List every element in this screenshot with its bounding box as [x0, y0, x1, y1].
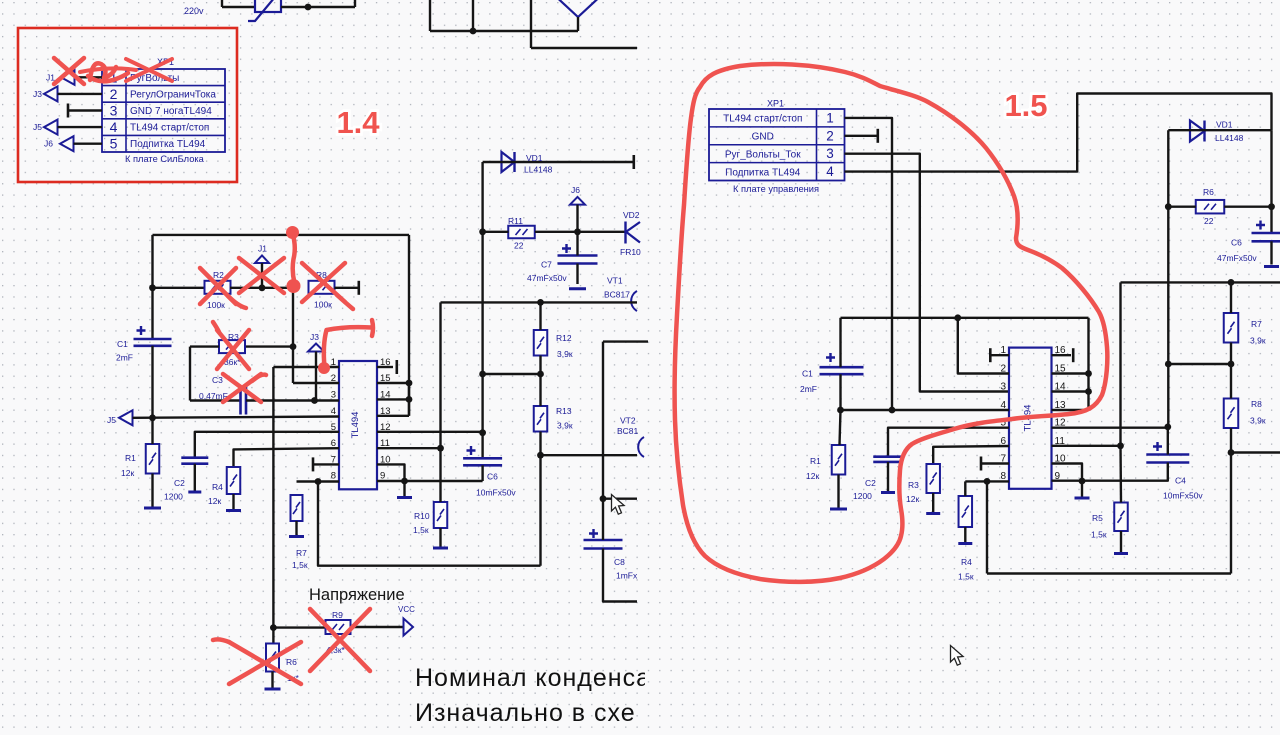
svg-text:3: 3	[1000, 382, 1006, 393]
red freehand loop around 1.5 input section	[675, 64, 1108, 582]
wire R11 to J6 node	[535, 231, 625, 233]
resistor R7 (1.4)	[291, 495, 303, 521]
label VT1 type	[604, 290, 630, 300]
junction J3 node	[311, 397, 318, 404]
wire pin9 row	[377, 480, 483, 482]
wire R10 top	[439, 448, 441, 502]
svg-text:47mFx50v: 47mFx50v	[1217, 253, 1257, 263]
wire C8 top	[602, 499, 604, 540]
wire R12 bottom stub	[539, 356, 541, 375]
ground pin9 (1.5)	[1075, 497, 1090, 500]
wire R7 bottom stub	[1230, 343, 1232, 365]
junction pin14	[406, 396, 413, 403]
wire pin10 jog (1.5)	[1052, 464, 1083, 482]
wire J5 to XP1 row4	[58, 126, 103, 128]
wire R2 to J1 node	[230, 287, 293, 289]
label C2 value	[164, 492, 183, 502]
red vertical squiggle	[293, 233, 295, 283]
svg-text:J6: J6	[44, 139, 53, 149]
svg-text:C2: C2	[865, 478, 876, 488]
connector pin J1 arrow	[61, 70, 75, 85]
wire x1168 crossing	[1167, 207, 1169, 427]
label R9 value	[326, 645, 346, 655]
label C2 (1.5)	[865, 478, 876, 488]
label R5	[1092, 513, 1103, 523]
junction pin12-C6	[479, 429, 486, 436]
wire J6 to XP1 row5	[74, 142, 103, 144]
svg-text:5: 5	[110, 136, 118, 152]
red tail R8	[337, 295, 353, 309]
wire pin15 stub	[377, 382, 409, 384]
svg-text:VD1: VD1	[1216, 120, 1233, 130]
wire horizontal y48 to seam	[531, 47, 637, 49]
label VD1 (1.5)	[1216, 120, 1233, 130]
svg-text:3,9к: 3,9к	[1250, 416, 1266, 426]
label К плате управления	[733, 184, 819, 194]
label C6 value	[476, 488, 516, 498]
label R8 (1.5)	[1251, 399, 1262, 409]
terminal pin16	[395, 360, 398, 374]
wire R4 bottom (1.5)	[964, 527, 966, 544]
junction R7 top	[1228, 279, 1235, 286]
wire VT2 collector top	[603, 340, 648, 342]
wire J5 to pin4	[133, 417, 340, 418]
junction R9 node	[270, 624, 277, 631]
label R10	[414, 511, 430, 521]
wire left rail upper x152	[151, 235, 153, 339]
svg-text:VT1: VT1	[607, 276, 623, 286]
svg-text:2mF: 2mF	[116, 353, 133, 363]
svg-text:VCC: VCC	[398, 605, 415, 614]
wire pin14 stub	[377, 398, 409, 400]
wire pin13 stub	[377, 415, 409, 417]
label C1 value	[116, 353, 133, 363]
svg-text:47mFx50v: 47mFx50v	[527, 273, 567, 283]
ground pin9 (1.4)	[397, 496, 412, 499]
red annotation rectangle around XP1	[18, 28, 237, 182]
junction pin9 gnd (1.5)	[1079, 478, 1086, 485]
capacitor C7	[558, 244, 598, 264]
wire pin16 stub (1.5)	[1052, 354, 1072, 356]
svg-text:R4: R4	[212, 482, 223, 492]
wire left rail lower x152	[151, 346, 153, 418]
red mark near pin1	[324, 320, 373, 367]
svg-text:Напряжение: Напряжение	[309, 586, 405, 604]
svg-text:К плате СилБлока: К плате СилБлока	[125, 154, 205, 164]
resistor R6 (1.4)	[266, 644, 279, 672]
svg-text:R1: R1	[125, 453, 136, 463]
wire R3 bottom (1.5)	[932, 493, 934, 513]
label R8 value	[314, 300, 332, 310]
wire C4 bottom corner	[1052, 463, 1168, 481]
wire pin2 net	[958, 318, 1009, 374]
svg-text:1,5к: 1,5к	[1091, 530, 1107, 540]
wire C7 bottom	[576, 264, 578, 285]
resistor R3	[219, 340, 245, 353]
wire pin16 stub	[377, 366, 393, 368]
wire C2 bottom	[194, 464, 196, 492]
XP1 pin numbers (1.5)	[826, 110, 834, 179]
svg-text:Подпитка TL494: Подпитка TL494	[725, 167, 801, 178]
ground R5	[1114, 552, 1128, 555]
junction J6 node	[574, 228, 581, 235]
svg-text:R1: R1	[810, 456, 821, 466]
junction R6 left (1.5)	[1165, 203, 1172, 210]
label C3	[212, 375, 223, 385]
connector pin J3 arrow (circuit 1.4)	[308, 344, 324, 352]
wire stub down x473	[472, 0, 474, 31]
capacitor C1 (1.5)	[820, 353, 864, 374]
resistor R1 (1.5)	[832, 445, 846, 475]
capacitor C1 (1.4)	[134, 326, 172, 346]
svg-text:R7: R7	[296, 548, 307, 558]
wire R10 bottom	[439, 528, 441, 548]
label R1 (1.5)	[810, 456, 821, 466]
label R11 value	[514, 241, 524, 251]
wire R6 bottom	[271, 672, 273, 690]
wire R1 bottom (1.5)	[837, 475, 839, 510]
terminal GND row2	[876, 129, 879, 143]
svg-text:LL4148: LL4148	[1215, 133, 1244, 143]
junction pin11	[437, 445, 444, 452]
wire pin15 stub (1.5)	[1052, 372, 1089, 374]
connector XP1 (1.4) table	[102, 69, 225, 152]
svg-text:К плате управления: К плате управления	[733, 184, 819, 194]
label VD2 value	[620, 247, 641, 257]
wire XP1 row4 net	[845, 94, 1272, 172]
XP1 net names (1.5)	[723, 114, 802, 179]
svg-text:BC81: BC81	[617, 426, 639, 436]
junction pin14 (1.5)	[1085, 388, 1092, 395]
wire C7 top	[576, 232, 578, 256]
junction pin12-C4	[1164, 424, 1171, 431]
wire C6 bottom stub	[481, 465, 483, 481]
ground R10	[433, 547, 448, 550]
svg-text:10mFx50v: 10mFx50v	[476, 488, 516, 498]
wire R13 top stub	[539, 374, 541, 406]
pin numbers 1-8 (1.4)	[331, 357, 336, 482]
wire C1 top stem	[839, 318, 841, 367]
terminal R8 right	[357, 281, 360, 295]
ground R1	[144, 507, 161, 510]
red cross over R6 (1.4)	[229, 642, 301, 684]
resistor R10	[434, 502, 448, 528]
wire R3 right	[245, 345, 293, 347]
junction R11 left	[479, 228, 486, 235]
wire C2 to pin5 (1.5)	[888, 428, 1009, 457]
wire row3 stub	[68, 109, 102, 111]
wire varistor to node	[281, 6, 355, 8]
wire R13 bottom stub	[539, 432, 541, 456]
label R6 value	[287, 673, 299, 683]
svg-text:C7: C7	[541, 260, 552, 270]
wire R6 top	[272, 628, 274, 644]
wire R11 left stub	[483, 231, 509, 233]
label R6 (1.5)	[1203, 187, 1214, 197]
svg-text:100к: 100к	[314, 300, 332, 310]
svg-text:12к: 12к	[121, 468, 134, 478]
junction R7-R8 mid	[1228, 361, 1235, 368]
label VT1	[607, 276, 623, 286]
svg-text:C8: C8	[614, 557, 625, 567]
power VCC arrow	[404, 619, 414, 636]
svg-text:C2: C2	[174, 478, 185, 488]
label R7 value (1.5)	[1250, 336, 1266, 346]
svg-text:R4: R4	[961, 557, 972, 567]
red blob bottom	[287, 279, 301, 293]
label XP1 (1.5)	[767, 99, 784, 109]
junction pin8 (1.5)	[984, 478, 991, 485]
label R1 value	[121, 468, 134, 478]
label R7 value	[292, 560, 308, 570]
svg-text:4: 4	[110, 119, 118, 135]
svg-text:22: 22	[514, 241, 524, 251]
svg-text:2mF: 2mF	[800, 384, 817, 394]
wire C6 riser (1.5)	[1270, 130, 1272, 233]
svg-text:Изначально в схе: Изначально в схе	[415, 699, 636, 727]
svg-text:1,5к: 1,5к	[292, 560, 308, 570]
wire R7 top stub	[1230, 282, 1232, 313]
diode VD1 (1.4)	[502, 152, 515, 172]
svg-text:C6: C6	[1231, 238, 1242, 248]
svg-text:VD2: VD2	[623, 210, 640, 220]
resistor R7 (1.5)	[1224, 313, 1239, 343]
svg-text:1.4: 1.4	[336, 105, 380, 140]
svg-text:TL494: TL494	[350, 412, 361, 439]
label C1 (1.5)	[802, 369, 813, 379]
svg-text:12к: 12к	[806, 471, 819, 481]
label VD1 value (1.5)	[1215, 133, 1244, 143]
svg-text:GND 7 ногаTL494: GND 7 ногаTL494	[130, 106, 212, 117]
svg-text:GND: GND	[752, 132, 774, 143]
wire C1 bottom stem	[839, 374, 841, 410]
wire pin8 drop (1.5)	[986, 481, 988, 573]
terminal bar row3	[67, 104, 70, 118]
label J5 (circuit 1.4)	[107, 415, 116, 425]
label VT2 type	[617, 426, 639, 436]
capacitor C3	[241, 387, 247, 415]
ground R3 (1.5)	[926, 512, 940, 515]
svg-text:R6: R6	[1203, 187, 1214, 197]
junction VT2 emitter	[600, 495, 607, 502]
red scribble over XP1 pin1 cell	[88, 63, 128, 81]
annotation version 1.5	[1004, 88, 1049, 126]
diode VD1 (1.5)	[1190, 121, 1205, 142]
junction x473 y31	[470, 28, 477, 35]
wire pin11 top rail	[1121, 281, 1280, 283]
wire R3 down	[189, 347, 191, 401]
junction R12-R13	[537, 371, 544, 378]
connector pin J5 arrow (XP1)	[44, 120, 58, 135]
annotation version 1.4	[336, 105, 381, 143]
label R3 value (1.5)	[906, 494, 919, 504]
wire R3 to pin6 (1.5)	[933, 446, 1009, 464]
red cross over R9	[310, 609, 370, 671]
diode VD2 FR107 (cut at seam)	[626, 222, 641, 244]
varistor RU1 top edge-cut	[248, 0, 281, 21]
label C2 value (1.5)	[853, 491, 872, 501]
label C1	[117, 339, 128, 349]
terminal C6 bottom (1.5)	[1264, 265, 1279, 268]
junction R8 bottom	[1228, 449, 1235, 456]
resistor R8	[309, 281, 335, 294]
capacitor C6	[463, 446, 502, 465]
label XP1 (1.4)	[157, 57, 174, 67]
label C6 value (1.5)	[1217, 253, 1257, 263]
svg-text:J3: J3	[310, 332, 319, 342]
connector pin J3 arrow	[44, 86, 58, 101]
pin numbers 9-16 (1.4)	[380, 357, 391, 482]
wire pin11 riser (1.5)	[1119, 282, 1121, 445]
label C8	[614, 557, 625, 567]
wire VD1 line (1.5)	[1168, 129, 1271, 131]
transistor VT1 circle arc (cut)	[631, 291, 637, 311]
label R3	[228, 332, 239, 342]
junction on 220v wire	[305, 4, 312, 11]
label J1 (circuit 1.4)	[258, 244, 267, 254]
label R9	[332, 610, 343, 620]
label VD1 (1.4)	[526, 153, 543, 163]
wire pin11 row (1.5)	[1052, 445, 1121, 447]
svg-text:R3: R3	[908, 480, 919, 490]
ground C2	[188, 491, 201, 494]
wire pin9 gnd stub	[403, 481, 405, 497]
wire R8 top stub	[1230, 364, 1232, 399]
wire R1 top (1.5)	[840, 410, 841, 445]
terminal pin1 (1.5)	[989, 348, 992, 362]
wire J6 stem	[576, 205, 578, 232]
wire pin12 row (1.5)	[1052, 427, 1168, 429]
wire C8 bottom corner	[603, 549, 637, 602]
mouse cursor 1	[612, 495, 625, 515]
capacitor C6 (1.5)	[1252, 221, 1280, 242]
label J6 (XP1)	[44, 139, 53, 149]
ground R4 (1.5)	[958, 542, 972, 545]
svg-text:100к: 100к	[207, 300, 225, 310]
junction R12 top	[537, 299, 544, 306]
resistor R4	[227, 467, 241, 494]
label C7	[541, 260, 552, 270]
svg-text:BC817: BC817	[604, 290, 630, 300]
label R8	[316, 270, 327, 280]
label R13 value	[557, 421, 573, 431]
svg-text:220v: 220v	[184, 6, 204, 16]
wire stub up right	[354, 0, 356, 7]
label J1	[46, 72, 55, 82]
wire pin4 row (1.5)	[841, 409, 1010, 411]
svg-text:1mFx: 1mFx	[616, 571, 638, 581]
wire R13 net drop	[539, 455, 541, 566]
red cross over R3	[217, 330, 249, 369]
label J3 (circuit 1.4)	[310, 332, 319, 342]
label R3 (1.5)	[908, 480, 919, 490]
wire pin7 stub (1.5)	[981, 462, 1009, 464]
wire pin10 jog	[377, 464, 405, 481]
capacitor C8	[584, 529, 623, 549]
wire R3 left	[190, 345, 219, 347]
wire R8 bottom stub	[1230, 428, 1232, 453]
wire pin8 row	[297, 480, 340, 482]
label 220v	[184, 6, 204, 16]
resistor R4 (1.5)	[959, 496, 973, 527]
label R13	[556, 406, 572, 416]
ground R1 (1.5)	[830, 508, 847, 511]
svg-text:R5: R5	[1092, 513, 1103, 523]
wire R5 bottom	[1120, 531, 1122, 553]
svg-text:1200: 1200	[853, 491, 872, 501]
label C1 value (1.5)	[800, 384, 817, 394]
wire R8 right stub	[335, 287, 359, 289]
wire R9 to VCC	[351, 626, 404, 628]
svg-text:J5: J5	[33, 122, 42, 132]
junction pin9 gnd	[401, 478, 408, 485]
label J3 (XP1)	[33, 89, 42, 99]
svg-text:1,5к: 1,5к	[958, 572, 974, 582]
svg-text:1: 1	[826, 110, 834, 125]
wire J3 to XP1 row2	[58, 93, 103, 95]
wire C6 rail vertical	[481, 232, 483, 458]
connector pin J6 arrow (circuit 1.4)	[570, 197, 585, 205]
resistor R13	[534, 406, 548, 432]
junction x1168 y364	[1165, 361, 1172, 368]
svg-text:22: 22	[1204, 216, 1214, 226]
capacitor C2 (1.5)	[873, 457, 903, 462]
label C6 (1.5)	[1231, 238, 1242, 248]
label R1	[125, 453, 136, 463]
red cross over R2	[200, 268, 236, 304]
svg-text:R12: R12	[556, 333, 572, 343]
wire R6 right stub (1.5)	[1224, 205, 1271, 207]
connector pin J5 arrow (circuit 1.4)	[119, 410, 133, 425]
wire pin7 stub	[313, 463, 339, 465]
label R2	[213, 270, 224, 280]
junction pin2 net top	[954, 314, 961, 321]
resistor R12	[534, 330, 548, 356]
red cross over net name row1	[126, 59, 172, 81]
junction pin11 (1.5)	[1117, 442, 1124, 449]
wire stub top-left	[221, 0, 223, 7]
wire pins15-14-13 tie	[408, 383, 410, 416]
red blob pin1	[318, 362, 330, 374]
wire VD1 line	[483, 161, 634, 163]
transistor VT2 circle arc (cut)	[638, 437, 644, 457]
junction pin15	[406, 380, 413, 387]
wire R8 bottom to edge	[1231, 451, 1280, 453]
red cross over J1 pin (XP1)	[54, 58, 84, 84]
svg-text:C4: C4	[1175, 476, 1186, 486]
wire C6 bottom (1.5)	[1270, 241, 1272, 264]
wire top net y235	[153, 234, 410, 236]
wire R7 bottom	[295, 521, 297, 537]
svg-text:10mFx50v: 10mFx50v	[1163, 491, 1203, 501]
label C6	[487, 472, 498, 482]
red cross over J1 arrow	[239, 258, 284, 293]
wire pin1 row	[273, 366, 339, 368]
wire right riser x409	[408, 235, 410, 416]
capacitor C4	[1146, 442, 1189, 463]
mouse cursor 2	[951, 646, 964, 666]
connector XP1 (1.5) table	[709, 109, 845, 181]
junction xp1row1-pin4	[889, 407, 896, 414]
wire VD1 left riser	[1167, 130, 1169, 207]
label R6 value (1.5)	[1204, 216, 1214, 226]
resistor R1	[146, 444, 160, 474]
svg-text:3,9к: 3,9к	[557, 349, 573, 359]
svg-text:R6: R6	[286, 657, 297, 667]
label C4 value	[1163, 491, 1203, 501]
wire pin11 riser x440	[439, 302, 441, 448]
wire VD1 anode riser	[481, 162, 483, 232]
